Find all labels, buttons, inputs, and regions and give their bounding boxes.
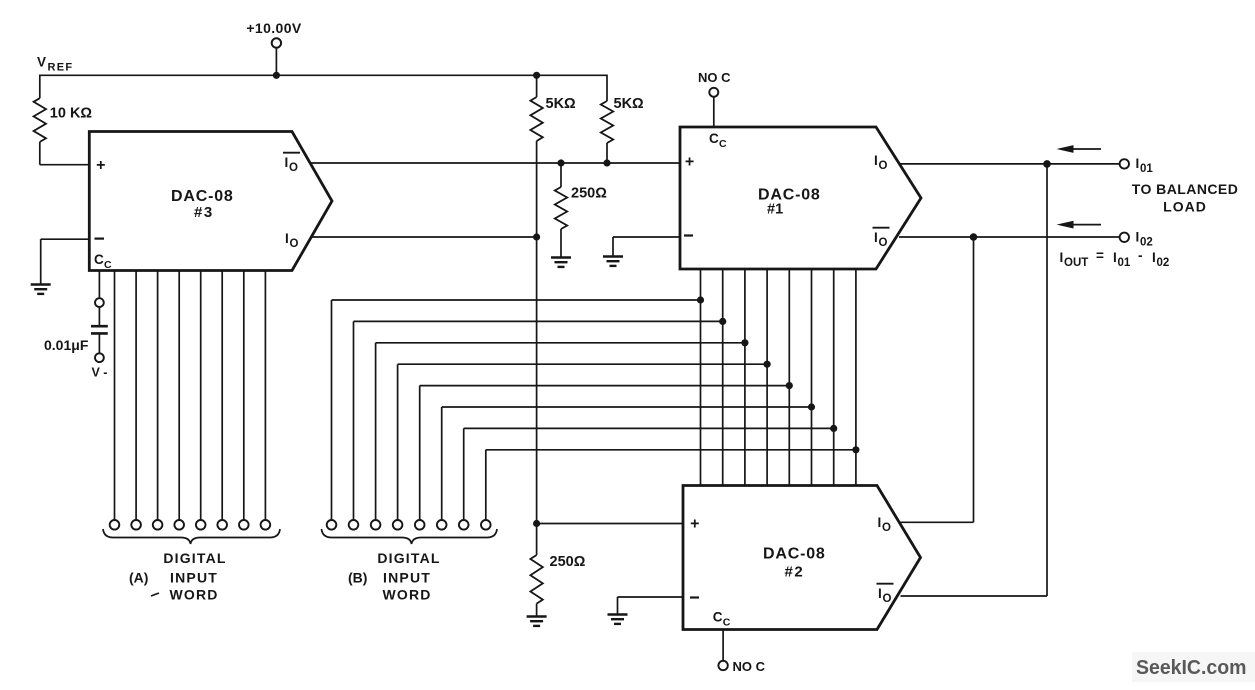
node A terminal 1 bbox=[110, 520, 120, 530]
svg-text:O: O bbox=[883, 593, 892, 605]
svg-text:REF: REF bbox=[48, 62, 74, 74]
node A terminal 2 bbox=[131, 520, 141, 530]
svg-text:OUT: OUT bbox=[1064, 257, 1088, 269]
wire R2 down long vertical to DAC2 plus bbox=[536, 141, 538, 524]
wire B bit 5 vertical bbox=[419, 386, 421, 520]
svg-text:I: I bbox=[874, 153, 878, 168]
node A terminal 7 bbox=[239, 520, 249, 530]
wire to U2 plus input bbox=[537, 523, 683, 525]
wire B bit 7 vertical bbox=[463, 428, 465, 520]
junction dot R3 output line bbox=[603, 159, 610, 166]
wire U1 IO output to I01 bbox=[899, 163, 1120, 165]
svg-text:+: + bbox=[96, 157, 105, 174]
junction dot VREF rail at R2 bbox=[533, 72, 540, 79]
svg-text:01: 01 bbox=[1118, 257, 1131, 269]
pin minus U1 bbox=[684, 234, 693, 236]
svg-text:C: C bbox=[94, 252, 104, 267]
wire U3 digital input pin 6 bbox=[221, 271, 223, 521]
wire U3 IO output bbox=[311, 236, 536, 238]
svg-text:-: - bbox=[1138, 248, 1143, 263]
wire to R5 bbox=[536, 524, 538, 556]
svg-text:I: I bbox=[1113, 250, 1117, 265]
svg-text:TO BALANCED: TO BALANCED bbox=[1132, 181, 1239, 197]
svg-text:(B): (B) bbox=[348, 570, 367, 586]
wire U1 pin 6 down to U2 bbox=[811, 269, 813, 486]
resistor R3 5K ohm bbox=[601, 101, 613, 143]
op-amp U2 DAC-08 #2 bbox=[683, 486, 921, 630]
wire VREF rail bbox=[40, 74, 607, 76]
svg-text:02: 02 bbox=[1157, 257, 1170, 269]
svg-text:250Ω: 250Ω bbox=[571, 186, 607, 202]
svg-text:DIGITAL: DIGITAL bbox=[163, 550, 226, 566]
wire B bit 3 horizontal bbox=[376, 342, 745, 344]
svg-text:I: I bbox=[878, 586, 882, 601]
svg-text:=: = bbox=[1096, 248, 1104, 263]
junction dot bit 4 bbox=[764, 361, 771, 368]
junction dot bit 3 bbox=[741, 339, 748, 346]
node A terminal 5 bbox=[196, 520, 206, 530]
wire U1 pin 7 down to U2 bbox=[833, 269, 835, 486]
junction dot bit 1 bbox=[697, 296, 704, 303]
wire B bit 2 vertical bbox=[353, 321, 355, 520]
wire U1 IO-bar output to I02 bbox=[899, 236, 1120, 238]
wire rail to R2 bbox=[536, 75, 538, 97]
pin minus U3 bbox=[95, 238, 105, 240]
svg-text:5KΩ: 5KΩ bbox=[614, 96, 645, 112]
svg-text:I: I bbox=[285, 231, 289, 246]
node B terminal 3 bbox=[371, 520, 381, 530]
wire U2 IO-bar up to I01 line bbox=[1046, 164, 1048, 596]
wire U1 pin 8 down to U2 bbox=[855, 269, 857, 486]
wire U1 pin 5 down to U2 bbox=[788, 269, 790, 486]
svg-text:10 KΩ: 10 KΩ bbox=[50, 106, 93, 122]
node CC terminal bbox=[95, 298, 104, 307]
wire U3 minus to ground bbox=[41, 238, 90, 240]
wire U1 pin 2 down to U2 bbox=[722, 269, 724, 486]
node B terminal 4 bbox=[393, 520, 403, 530]
svg-text:WORD: WORD bbox=[382, 587, 431, 603]
junction dot I02 column bbox=[970, 233, 978, 241]
svg-text:#2: #2 bbox=[785, 564, 805, 581]
svg-text:O: O bbox=[879, 237, 888, 249]
brace group A bbox=[103, 529, 280, 544]
wire U3 digital input pin 5 bbox=[200, 271, 202, 521]
svg-text:I: I bbox=[878, 515, 882, 530]
node A terminal 3 bbox=[153, 520, 163, 530]
wire R1 to DAC3 plus input bbox=[39, 142, 41, 165]
svg-text:V: V bbox=[37, 55, 46, 70]
svg-text:C: C bbox=[709, 131, 719, 146]
op-amp U1 DAC-08 #1 bbox=[680, 127, 921, 269]
svg-text:C: C bbox=[104, 259, 112, 271]
wire U3 digital input pin 1 bbox=[114, 271, 116, 521]
svg-text:I: I bbox=[874, 230, 878, 245]
node B terminal 6 bbox=[437, 520, 447, 530]
svg-text:#1: #1 bbox=[767, 202, 783, 218]
wire B bit 4 horizontal bbox=[398, 363, 767, 365]
svg-text:NO C: NO C bbox=[733, 659, 766, 674]
svg-text:5KΩ: 5KΩ bbox=[546, 96, 577, 112]
svg-text:DAC-08: DAC-08 bbox=[763, 546, 826, 563]
wire B bit 1 vertical bbox=[331, 300, 333, 520]
resistor R5 250 ohm bbox=[530, 555, 542, 604]
ground below R4 bbox=[551, 256, 571, 258]
resistor R4 250 ohm bbox=[555, 187, 567, 229]
ground at U3 minus bbox=[31, 283, 51, 285]
svg-text:C: C bbox=[723, 617, 731, 629]
svg-text:NO C: NO C bbox=[698, 70, 731, 85]
resistor R2 5K ohm bbox=[530, 97, 542, 141]
node A terminal 6 bbox=[217, 520, 227, 530]
svg-text:01: 01 bbox=[1140, 163, 1153, 175]
wire capacitor to V- terminal bbox=[98, 333, 100, 353]
capacitor C1 0.01uF bbox=[91, 325, 108, 328]
wire B bit 7 horizontal bbox=[464, 427, 834, 429]
wire VREF down to R1 bbox=[39, 75, 41, 99]
svg-text:WORD: WORD bbox=[169, 587, 218, 603]
node V- terminal bbox=[95, 353, 104, 362]
svg-text:+: + bbox=[690, 516, 699, 533]
wire to R4 bbox=[560, 163, 562, 187]
arrow current I02 bbox=[1071, 224, 1101, 226]
wire U3 digital input pin 8 bbox=[264, 271, 266, 521]
svg-text:250Ω: 250Ω bbox=[550, 554, 586, 570]
wire B bit 5 horizontal bbox=[420, 385, 790, 387]
brace group B bbox=[322, 529, 498, 544]
ground at U1 minus bbox=[603, 255, 623, 257]
svg-text:LOAD: LOAD bbox=[1163, 199, 1207, 215]
wire U2 IO up to I02 line bbox=[973, 237, 975, 522]
arrow current I01 bbox=[1071, 148, 1101, 150]
wire to capacitor C1 bbox=[98, 307, 100, 326]
svg-text:SeekIC.com: SeekIC.com bbox=[1136, 656, 1247, 679]
wire U2 CC to NO C bbox=[722, 630, 724, 661]
junction dot bit 6 bbox=[808, 403, 815, 410]
wire R3 to output line bbox=[606, 143, 608, 163]
node B terminal 1 bbox=[327, 520, 337, 530]
pin minus U2 bbox=[690, 596, 699, 598]
svg-text:0.01μF: 0.01μF bbox=[44, 337, 89, 353]
wire U1 pin 1 down to U2 bbox=[700, 269, 702, 486]
svg-text:I: I bbox=[1136, 156, 1140, 171]
stray tick mark bbox=[151, 593, 159, 596]
wire U3 CC pin bbox=[98, 271, 100, 299]
svg-text:I: I bbox=[1060, 250, 1064, 265]
svg-text:INPUT: INPUT bbox=[383, 570, 431, 586]
wire U3 digital input pin 2 bbox=[135, 271, 137, 521]
wire U3 digital input pin 4 bbox=[178, 271, 180, 521]
svg-text:02: 02 bbox=[1140, 237, 1153, 249]
junction dot bit 2 bbox=[719, 318, 726, 325]
wire U2 minus to ground bbox=[618, 596, 684, 598]
svg-text:I: I bbox=[1136, 230, 1140, 245]
wire B bit 3 vertical bbox=[375, 343, 377, 520]
ground below R5 bbox=[527, 615, 547, 617]
svg-text:O: O bbox=[290, 238, 299, 250]
node I02 terminal bbox=[1120, 233, 1129, 242]
svg-text:#3: #3 bbox=[194, 204, 214, 221]
wire B bit 2 horizontal bbox=[354, 320, 723, 322]
node B terminal 7 bbox=[459, 520, 469, 530]
ground at U2 minus bbox=[608, 613, 628, 615]
wire B bit 8 horizontal bbox=[486, 449, 856, 451]
svg-text:+10.00V: +10.00V bbox=[246, 20, 302, 36]
svg-text:C: C bbox=[713, 610, 723, 625]
node B terminal 5 bbox=[415, 520, 425, 530]
wire rail corner to R3 bbox=[606, 75, 608, 102]
op-amp U3 DAC-08 #3 bbox=[89, 132, 332, 271]
svg-text:V -: V - bbox=[92, 366, 108, 380]
node A terminal 8 bbox=[261, 520, 271, 530]
svg-text:O: O bbox=[289, 162, 298, 174]
wire B bit 6 horizontal bbox=[442, 406, 812, 408]
resistor R1 10 K ohm bbox=[34, 98, 46, 142]
label SeekIC.com watermark bbox=[1132, 652, 1255, 682]
wire U1 pin 3 down to U2 bbox=[744, 269, 746, 486]
svg-text:+: + bbox=[685, 154, 694, 171]
junction dot bit 7 bbox=[830, 425, 837, 432]
svg-text:I: I bbox=[285, 155, 289, 170]
wire R5 to ground bbox=[536, 604, 538, 617]
wire U3 digital input pin 7 bbox=[243, 271, 245, 521]
wire B bit 6 vertical bbox=[441, 407, 443, 520]
svg-text:(A): (A) bbox=[129, 570, 148, 586]
node B terminal 8 bbox=[481, 520, 491, 530]
junction dot bit 5 bbox=[786, 382, 793, 389]
svg-text:O: O bbox=[882, 522, 891, 534]
wire B bit 4 vertical bbox=[397, 364, 399, 520]
junction dot R4 top bbox=[557, 159, 564, 166]
junction dot U2 plus line bbox=[533, 520, 540, 527]
wire R4 to ground bbox=[560, 229, 562, 258]
node B terminal 2 bbox=[349, 520, 359, 530]
svg-text:DIGITAL: DIGITAL bbox=[377, 550, 440, 566]
svg-text:O: O bbox=[879, 160, 888, 172]
wire U3 IO-bar output to U1 plus input bbox=[311, 162, 680, 164]
wire U1 minus to ground bbox=[613, 236, 680, 238]
node A terminal 4 bbox=[174, 520, 184, 530]
wire U3 digital input pin 3 bbox=[157, 271, 159, 521]
junction dot IO line at R4 bbox=[533, 233, 540, 240]
wire U1 pin 4 down to U2 bbox=[766, 269, 768, 486]
node NO C terminal U2 bbox=[718, 661, 727, 670]
junction dot I01 column bbox=[1043, 160, 1051, 168]
junction dot bit 8 bbox=[852, 446, 859, 453]
svg-text:I: I bbox=[1152, 250, 1156, 265]
svg-text:INPUT: INPUT bbox=[170, 570, 218, 586]
wire B bit 8 vertical bbox=[485, 450, 487, 520]
svg-text:DAC-08: DAC-08 bbox=[171, 188, 234, 205]
svg-text:C: C bbox=[719, 138, 727, 150]
wire B bit 1 horizontal bbox=[332, 299, 701, 301]
node I01 terminal bbox=[1120, 159, 1129, 168]
